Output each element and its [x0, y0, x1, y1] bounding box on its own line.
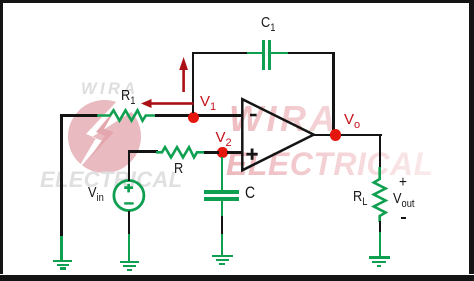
wire	[127, 149, 129, 151]
op-amp U1	[240, 96, 318, 174]
node V1	[188, 112, 199, 123]
label R	[174, 161, 183, 176]
label Vout	[393, 191, 415, 206]
wire	[378, 220, 380, 222]
label C1	[261, 15, 275, 30]
label Vout plus	[399, 175, 407, 191]
current arrow up at V1	[178, 57, 190, 93]
label Vo	[344, 112, 360, 127]
node V2	[217, 147, 228, 158]
wire	[128, 152, 131, 181]
label R1	[121, 88, 135, 103]
node Vo	[330, 129, 342, 141]
resistor R1	[97, 105, 156, 126]
wire	[378, 133, 380, 135]
wire	[204, 151, 219, 154]
label V1	[200, 94, 216, 109]
wire	[192, 52, 195, 113]
voltage source Vin	[111, 178, 147, 214]
ground	[211, 254, 213, 256]
resistor R	[156, 142, 206, 163]
ground	[119, 260, 121, 262]
label RL	[353, 189, 367, 204]
wire	[192, 52, 248, 55]
wire	[313, 134, 333, 137]
wire	[288, 52, 335, 55]
wire	[127, 210, 129, 212]
wire	[59, 113, 61, 115]
resistor RL	[369, 167, 390, 234]
current arrow left through R1	[141, 98, 194, 109]
label Vin	[88, 185, 104, 200]
wire	[341, 134, 382, 137]
label Vout minus	[401, 217, 406, 220]
capacitor C	[203, 189, 205, 191]
label V2	[216, 130, 232, 145]
label C	[245, 185, 255, 202]
wire	[220, 200, 222, 202]
wire	[332, 52, 335, 130]
capacitor C1	[246, 39, 248, 41]
wire	[60, 114, 98, 117]
wire	[155, 114, 242, 117]
wire	[227, 151, 243, 154]
wire	[221, 157, 224, 190]
ground	[52, 259, 54, 261]
ground	[368, 255, 370, 257]
